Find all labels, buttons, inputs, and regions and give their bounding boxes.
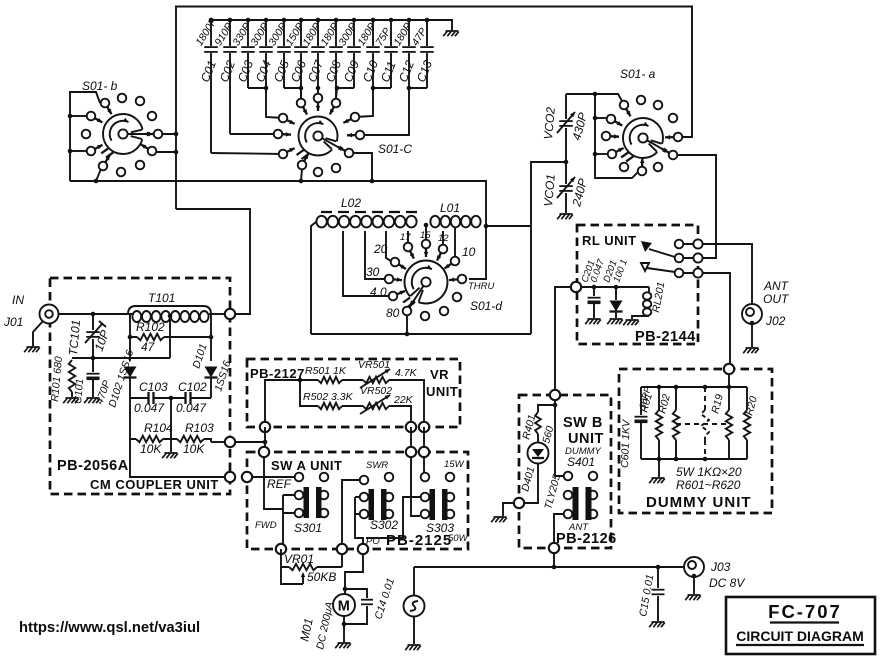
svg-text:DUMMY UNIT: DUMMY UNIT xyxy=(646,494,752,511)
svg-text:C101: C101 xyxy=(72,378,86,404)
resistor R104 10K xyxy=(130,398,173,456)
svg-text:R601~R620: R601~R620 xyxy=(676,478,741,492)
transformer T101 xyxy=(128,291,211,322)
S01-b contact pin 5 xyxy=(87,112,103,123)
diode D102 1SS16 xyxy=(106,348,136,408)
contact: relay row3 xyxy=(675,269,684,278)
svg-text:THRU: THRU xyxy=(468,281,495,292)
node: SWA bottom circle (to VR01 left) xyxy=(276,544,286,554)
resistor R.. (dashed continuation) xyxy=(676,387,729,459)
svg-text:S301: S301 xyxy=(294,521,322,535)
wire: S303 feed riser xyxy=(411,457,420,516)
S01-c contact pin 8 xyxy=(274,130,291,139)
wire: S01-b right contacts to vertical x176 xyxy=(156,132,178,155)
svg-text:C102: C102 xyxy=(178,380,207,394)
wire: C12/C13 junction to S01-c contact xyxy=(360,86,427,135)
svg-text:47: 47 xyxy=(141,340,156,354)
S01-b contact pin 1 xyxy=(101,99,112,115)
wire: C05/C06 junction down to S01-c top-left contact xyxy=(284,86,303,98)
wire: THRU contact riser xyxy=(469,226,486,279)
wire: REF output y477 xyxy=(130,439,225,477)
capacitor C01 1800P xyxy=(193,16,219,153)
wire: external RF line from S01-b x176 down to T101 xyxy=(176,209,250,314)
svg-text:0.047: 0.047 xyxy=(176,401,207,415)
capacitor C12 180P xyxy=(391,18,417,88)
unit box SW B UNIT PB-2126 xyxy=(519,395,611,548)
wire: T101 center tap xyxy=(169,317,171,358)
node: L02/L01 junction xyxy=(424,223,429,228)
S01-a contact pin 1 xyxy=(620,101,631,117)
ground: J01 shell xyxy=(24,347,40,352)
wire: lamp/DC bus y567 xyxy=(414,565,684,570)
svg-text:330P: 330P xyxy=(230,21,253,48)
capacitor C09 300P xyxy=(336,18,362,88)
S01-a contact pin 5 xyxy=(669,114,678,123)
connector J01 (IN) xyxy=(33,305,59,347)
wire: stub contact y154 xyxy=(595,153,607,155)
wire: PO meter line xyxy=(345,554,363,589)
capacitor VCO1 240P xyxy=(541,162,590,213)
svg-text:PB-2127: PB-2127 xyxy=(250,366,305,381)
capacitor C10 180P xyxy=(355,18,381,88)
S01-b contact pin 8 xyxy=(87,145,103,155)
svg-text:180P: 180P xyxy=(355,21,378,48)
svg-text:SW A UNIT: SW A UNIT xyxy=(271,458,342,473)
wire: row3 to dummy unit xyxy=(703,273,730,364)
wire: left secondary leg x130 xyxy=(129,314,131,361)
svg-text:J01: J01 xyxy=(3,315,23,329)
svg-text:T101: T101 xyxy=(148,291,175,305)
svg-text:IN: IN xyxy=(12,293,24,307)
svg-text:22K: 22K xyxy=(393,394,414,406)
svg-text:300P: 300P xyxy=(248,21,271,48)
wire: center leg to ground xyxy=(170,398,172,452)
unit box VR UNIT PB-2127 xyxy=(247,359,460,427)
capacitor C201 0.047 xyxy=(579,257,607,318)
diode D201 xyxy=(601,258,629,318)
wire: 15W riser xyxy=(423,457,425,472)
svg-text:4.7K: 4.7K xyxy=(395,367,418,379)
wire: L02 left end down to bottom bus xyxy=(311,222,316,334)
S01-c contact pin 3 xyxy=(314,94,323,111)
node: SWB bottom circle xyxy=(549,543,559,553)
resistor R102 47 xyxy=(128,320,214,354)
wire: top frame loop (T101/S01-b node to S01-a contact) xyxy=(176,7,692,210)
svg-text:5W 1KΩ×20: 5W 1KΩ×20 xyxy=(676,465,742,479)
S01-c contact pin 4 xyxy=(330,99,341,115)
svg-text:S01-C: S01-C xyxy=(378,142,412,156)
resistor R101 680 xyxy=(49,356,75,403)
S01-c contact pin 2 xyxy=(297,99,307,115)
svg-text:S01- b: S01- b xyxy=(82,79,118,93)
svg-text:C02: C02 xyxy=(217,58,238,84)
potentiometer VR501 4.7K xyxy=(358,359,424,422)
svg-text:R502 3.3K: R502 3.3K xyxy=(303,391,354,403)
S01-c contact pin 11 xyxy=(314,168,323,177)
S01-b contact pin 9 xyxy=(141,144,157,155)
svg-text:S401: S401 xyxy=(567,455,595,469)
wire: coil drive from RL input xyxy=(581,285,649,290)
capacitor C601 1KV 10PF xyxy=(619,385,654,468)
wire: reference node horizontal y358 xyxy=(72,357,170,359)
wire: VR row2 to SWA xyxy=(410,427,412,448)
svg-text:180P: 180P xyxy=(300,21,323,48)
ground: C101 xyxy=(84,398,100,403)
wire: REF feed xyxy=(252,476,294,478)
wire: RL input from x555 riser xyxy=(555,287,571,390)
svg-text:4.0: 4.0 xyxy=(370,285,387,299)
S01-c contact pin 6 xyxy=(347,131,364,140)
S01-b contact pin 2 xyxy=(118,94,127,103)
wire: stub to S01-b contact y116 xyxy=(70,115,86,117)
lamp PL xyxy=(404,567,425,644)
rotary switch S01-c xyxy=(297,117,345,160)
svg-text:DC 200μA: DC 200μA xyxy=(314,601,336,651)
wire: T101 right to box edge circle xyxy=(209,313,225,315)
S01-a contact pin 4 xyxy=(607,115,623,126)
svg-text:R102: R102 xyxy=(136,320,165,334)
capacitor C02 910P xyxy=(212,18,238,134)
S01-b contact pin 10 xyxy=(99,155,110,170)
svg-text:R101 680: R101 680 xyxy=(49,356,65,403)
S01-a contact pin 2 xyxy=(637,96,646,105)
unit box RL UNIT PB-2144 xyxy=(577,225,698,344)
wire: C03/C04 junction to S01-c contact xyxy=(248,86,283,118)
svg-text:20: 20 xyxy=(373,242,388,256)
resistor R501 1K xyxy=(300,365,363,383)
wire: tap 15 xyxy=(425,225,427,239)
capacitor C07 180P xyxy=(300,18,326,99)
node: CM box FWD circle xyxy=(225,437,235,447)
wire: S01-c wiper contact to bus xyxy=(353,153,372,181)
svg-text:C13: C13 xyxy=(414,58,435,84)
wire: dummy bottom bus xyxy=(641,457,747,462)
wire: dummy ground leg xyxy=(658,459,660,477)
inductor L02 xyxy=(316,196,420,227)
S01-d contact 80 xyxy=(403,300,414,315)
svg-text:C15 0.01: C15 0.01 xyxy=(637,573,656,617)
S01-a contact pin 10 xyxy=(620,163,629,172)
ground: meter xyxy=(335,643,351,648)
diode D101 1SS16 xyxy=(190,342,233,398)
wire: VR left leg xyxy=(265,378,302,422)
svg-text:50KB: 50KB xyxy=(307,570,336,584)
svg-text:VCO2: VCO2 xyxy=(541,106,558,140)
S01-b contact pin 11 xyxy=(117,168,126,177)
S01-a contact pin 8 xyxy=(608,148,624,158)
svg-text:L01: L01 xyxy=(440,201,460,215)
svg-text:C10: C10 xyxy=(360,58,381,84)
svg-text:R103: R103 xyxy=(185,421,214,435)
wire: C10/C11 junction to S01-c contact xyxy=(355,86,391,117)
svg-text:15: 15 xyxy=(420,230,431,241)
node: SWA top circles from VR xyxy=(406,447,416,457)
contact: REF row xyxy=(295,473,304,482)
S01-a contact pin 6 xyxy=(602,132,619,141)
inductor L01 xyxy=(430,201,480,227)
svg-text:R501 1K: R501 1K xyxy=(305,365,347,377)
contact: SWR row xyxy=(360,476,369,485)
svg-text:S01-d: S01-d xyxy=(470,299,502,313)
S01-c contact pin 9 xyxy=(338,147,354,158)
svg-text:R104: R104 xyxy=(144,421,173,435)
S01-d contact 30 xyxy=(385,275,402,284)
trimmer TC101 10P xyxy=(66,314,112,358)
wire: S401 out xyxy=(554,514,564,543)
svg-text:VR01: VR01 xyxy=(284,552,314,566)
rotary switch S01-a xyxy=(621,118,668,161)
ground: J02 xyxy=(743,348,759,353)
resistor R19 xyxy=(709,387,732,459)
node: SWB left circle xyxy=(514,498,524,508)
wire: tap 12 xyxy=(442,231,444,244)
wire: SWB input riser xyxy=(553,400,563,476)
svg-text:https://www.qsl.net/va3iul: https://www.qsl.net/va3iul xyxy=(19,620,200,636)
contact: 15W row xyxy=(421,473,430,482)
node: VR box left circle xyxy=(260,422,270,432)
wire: S01-b lower contact to bottom bus xyxy=(96,169,101,181)
ground: C201 xyxy=(585,319,601,324)
contact: relay row1 xyxy=(675,240,684,249)
S01-d contact THRU xyxy=(449,275,466,284)
svg-text:180P: 180P xyxy=(318,21,341,48)
S01-d contact nc xyxy=(440,307,449,316)
ground: lamp xyxy=(405,645,421,650)
svg-text:UNIT: UNIT xyxy=(426,384,458,399)
S01-d contact 10 xyxy=(445,257,460,269)
wire: C08/C09 junction down to S01-c contact xyxy=(335,86,354,98)
potentiometer VR01 50KB xyxy=(281,549,342,584)
S01-a contact pin 3 xyxy=(654,101,663,110)
ground: D201 xyxy=(607,319,623,324)
ground: RL201 xyxy=(623,320,639,325)
LED D401 TLY205 xyxy=(519,434,563,511)
node: SWA top circle (FWD in) xyxy=(259,447,269,457)
wire: tap 20 xyxy=(386,231,391,261)
wire: S01-a wiper contact to RL unit (down x716) xyxy=(678,155,716,258)
svg-text:ANT: ANT xyxy=(763,279,790,293)
ground: C15 xyxy=(649,622,665,627)
rotary switch S01-b xyxy=(101,114,152,157)
wire: SWB bottom to bus xyxy=(553,553,555,567)
wire: tap 17 xyxy=(407,231,409,242)
capacitor C102 0.047 xyxy=(154,380,211,415)
svg-text:C03: C03 xyxy=(235,58,256,84)
capacitor C14 0.01 xyxy=(342,577,397,627)
S01-c contact pin 12 xyxy=(332,164,341,173)
svg-text:560: 560 xyxy=(540,425,556,445)
svg-text:C08: C08 xyxy=(323,58,344,84)
svg-text:REF: REF xyxy=(267,477,292,491)
svg-text:J02: J02 xyxy=(765,314,786,328)
svg-text:PB-2144: PB-2144 xyxy=(635,329,696,345)
svg-text:SW B: SW B xyxy=(563,415,603,431)
S01-a contact pin 7 xyxy=(665,133,682,142)
S01-c contact pin 7 xyxy=(279,148,295,158)
capacitor C05 300P xyxy=(266,18,292,88)
resistor R01 xyxy=(638,387,662,459)
svg-text:C12: C12 xyxy=(396,58,417,84)
connector J03 DC 8V xyxy=(684,557,704,594)
wire: S303 upper contact wire xyxy=(366,497,420,538)
wire: VCO node to coil section (x531) xyxy=(531,162,566,334)
svg-text:L02: L02 xyxy=(341,196,361,210)
wire: S01-a top-left contact feed xyxy=(595,94,622,101)
svg-text:FWD: FWD xyxy=(255,520,277,531)
S01-c contact pin 10 xyxy=(298,154,309,170)
S01-b contact pin 12 xyxy=(136,161,145,170)
svg-text:RL201: RL201 xyxy=(650,281,667,314)
wire: C07 down to S01-c top contact xyxy=(316,86,321,93)
wire: J01 to T101 xyxy=(58,312,134,317)
ground: dummy xyxy=(649,478,665,483)
wire: S01-b left bus xyxy=(68,92,100,181)
svg-text:RL UNIT: RL UNIT xyxy=(582,233,637,248)
capacitor C04 300P xyxy=(248,18,274,88)
wire: tap 10 xyxy=(454,228,456,256)
node: VR box right circle (row1) xyxy=(419,422,429,432)
svg-text:0.047: 0.047 xyxy=(134,401,165,415)
svg-text:300P: 300P xyxy=(336,21,359,48)
wire: VR row2 left xyxy=(300,380,318,406)
svg-text:80: 80 xyxy=(386,306,400,320)
node: SWA bottom circle (PO meter out) xyxy=(358,544,368,554)
svg-text:OUT: OUT xyxy=(763,292,790,306)
wire: 80 contact to bus xyxy=(406,316,408,334)
capacitor C11 75P xyxy=(373,18,398,88)
node: meter top xyxy=(343,587,348,592)
wire: FWD output y442 xyxy=(211,441,225,443)
S01-d contact 20 xyxy=(391,258,406,269)
svg-text:30: 30 xyxy=(366,265,380,279)
wire: dummy top bus xyxy=(641,385,747,390)
wire: SWR contact down xyxy=(342,480,359,549)
svg-text:J03: J03 xyxy=(710,560,731,574)
contact: S401 top row xyxy=(564,472,573,481)
wire: S01-c bottom contact to bus xyxy=(301,169,302,181)
node: VCO junction xyxy=(564,160,569,165)
capacitor C06 150P xyxy=(283,18,309,104)
capacitor C03 330P xyxy=(230,18,256,88)
S01-b contact pin 3 xyxy=(136,97,145,106)
capacitor C15 0.01 xyxy=(637,567,664,621)
node: dummy box top circle xyxy=(724,364,734,374)
S01-d contact 17 xyxy=(404,243,414,259)
svg-text:VR502: VR502 xyxy=(360,385,392,397)
node: SWA bottom circle (to VR01 right) xyxy=(337,544,347,554)
wire: CM FWD to VR/SWA junction xyxy=(235,441,265,443)
svg-text:180P: 180P xyxy=(391,21,414,48)
wire: long bottom bus y181 xyxy=(70,179,486,226)
ground: SWB xyxy=(491,517,507,522)
S01-a contact pin 11 xyxy=(638,158,647,175)
unit box SW A UNIT PB-2125 xyxy=(247,452,468,549)
svg-text:CM COUPLER UNIT: CM COUPLER UNIT xyxy=(90,477,219,492)
svg-text:10K: 10K xyxy=(140,442,162,456)
wire: row pairs xyxy=(683,244,694,273)
node: VR box right circle (row2) xyxy=(406,422,416,432)
resistor R502 3.3K xyxy=(303,391,354,409)
switch S302 xyxy=(360,489,394,520)
svg-text:10: 10 xyxy=(462,245,476,259)
S01-c contact pin 1 xyxy=(279,114,295,124)
S01-a contact pin 12 xyxy=(654,163,663,172)
capacitor C101 470P xyxy=(72,358,113,406)
svg-text:12: 12 xyxy=(438,233,449,244)
wire: VR row1 to SWA xyxy=(423,427,425,448)
capacitor C08 180P xyxy=(318,18,344,104)
S01-d contact 40 xyxy=(389,291,405,301)
relay coil RL201 xyxy=(632,281,667,319)
wire: C02 to S01-c left contact xyxy=(230,133,278,135)
resistor R401 560 xyxy=(520,405,556,445)
svg-text:PB-2056A: PB-2056A xyxy=(57,458,129,474)
wire: right secondary leg x211 xyxy=(210,314,212,361)
svg-text:R19: R19 xyxy=(709,393,726,415)
ground: R101 xyxy=(63,398,79,403)
svg-text:C14 0.01: C14 0.01 xyxy=(372,577,397,621)
capacitor VCO2 430P xyxy=(541,94,590,162)
node: SWA left circle (REF in) xyxy=(242,472,252,482)
S01-d contact 15 xyxy=(422,240,431,257)
wire: FWD riser xyxy=(264,457,283,509)
svg-text:PB-2126: PB-2126 xyxy=(556,531,617,547)
wire: S301 left column xyxy=(283,495,294,549)
unit box CM COUPLER PB-2056A xyxy=(50,278,230,494)
svg-text:M01: M01 xyxy=(297,617,316,643)
ground: J03 xyxy=(685,595,701,600)
wire: stub to S01-b contact y151 xyxy=(70,150,86,152)
wire: S01-a left bus xyxy=(566,92,638,178)
S01-d contact nc xyxy=(453,293,462,302)
svg-text:M: M xyxy=(338,599,351,615)
node: bridge reference xyxy=(91,356,96,361)
svg-text:C09: C09 xyxy=(341,58,362,84)
S01-b contact pin 7 xyxy=(145,130,162,139)
svg-text:CIRCUIT DIAGRAM: CIRCUIT DIAGRAM xyxy=(736,628,864,644)
switch S401 xyxy=(564,487,598,520)
svg-text:C103: C103 xyxy=(139,380,168,394)
svg-text:D101: D101 xyxy=(190,342,209,370)
svg-text:TC101: TC101 xyxy=(66,319,83,356)
wire: row1 to J02 xyxy=(703,244,752,304)
svg-text:240P: 240P xyxy=(569,177,590,209)
svg-text:C01: C01 xyxy=(198,58,219,84)
rotary switch S01-d xyxy=(403,261,447,307)
wire: meter ground leg xyxy=(343,624,345,642)
node: L01 right end xyxy=(484,224,489,229)
S01-b contact pin 4 xyxy=(148,112,157,121)
resistor R02 xyxy=(656,387,679,459)
svg-text:VR: VR xyxy=(430,367,449,382)
svg-text:D401: D401 xyxy=(519,465,537,492)
svg-text:VR501: VR501 xyxy=(358,359,390,371)
svg-text:10K: 10K xyxy=(183,442,205,456)
svg-text:VCO1: VCO1 xyxy=(541,173,558,207)
svg-text:FC-707: FC-707 xyxy=(768,601,842,622)
wire: L01 right to x531 vertical xyxy=(486,225,531,227)
node: RL box input circle xyxy=(571,282,581,292)
wire: tap 40 xyxy=(343,231,388,296)
wire: SWB to ground xyxy=(503,503,514,516)
wire: S01-a right contact to top frame xyxy=(682,136,692,138)
wire: VR to SWA x265 xyxy=(263,427,268,447)
resistor R103 10K xyxy=(171,421,214,456)
wire: S01-d bottom bus xyxy=(311,332,531,337)
node: SWB top circle xyxy=(550,390,560,400)
S01-d contact 12 xyxy=(437,245,447,261)
svg-text:15W: 15W xyxy=(444,459,465,470)
